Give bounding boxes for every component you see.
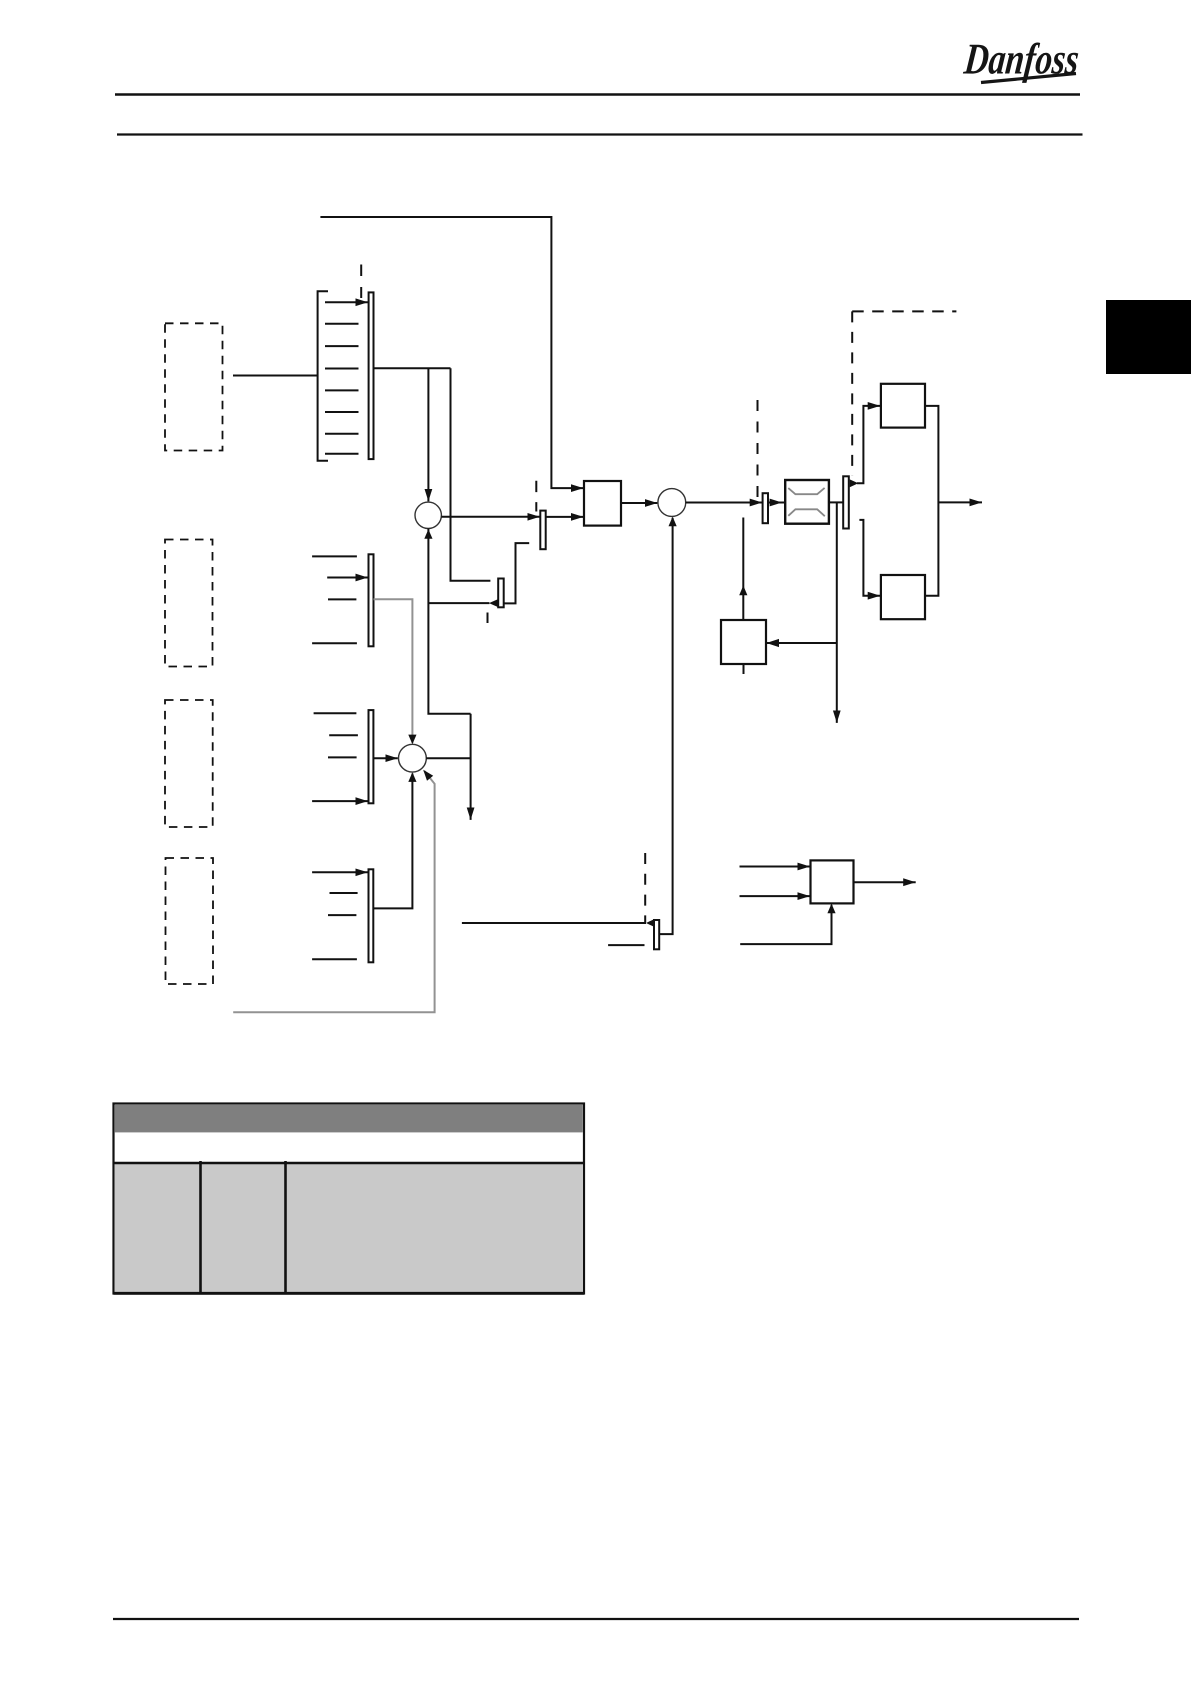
selector 4 bar	[369, 869, 374, 962]
dashed box: external reference source 2	[165, 700, 213, 827]
ramp icon lower	[788, 509, 825, 516]
arrow of feedback into sum node 2	[423, 770, 433, 781]
arrow into digital pot bottom	[827, 904, 835, 914]
table outer border	[114, 1104, 585, 1294]
ladder rung 6	[325, 411, 359, 413]
ladder rung 2	[325, 323, 359, 325]
dashed box: external reference source 3	[166, 858, 214, 984]
wire from preset source to selector ladder	[233, 375, 318, 377]
arrow up on freeze feed	[739, 586, 747, 596]
wire upper branch to block A	[857, 406, 880, 483]
arrow up into sum node 1 bottom	[424, 529, 432, 539]
digital pot block input 1	[740, 866, 811, 868]
gray feedback wire into sum node 2	[233, 771, 434, 1012]
preset selector bar	[369, 292, 374, 459]
dashed box: external reference source 1	[165, 540, 213, 667]
selector 2 rung 2 with select arrow	[327, 577, 368, 579]
table body band	[115, 1163, 583, 1293]
selector 3 rung 3	[328, 756, 357, 758]
digital pot output arrow	[854, 881, 916, 883]
selector 3 rung 2	[329, 734, 358, 736]
wire freeze-ref switch up into sum node 3	[659, 518, 672, 934]
selector 3 rung 1	[314, 712, 357, 714]
table header band	[115, 1105, 583, 1133]
header rule 2	[117, 133, 1083, 135]
header rule 1	[115, 93, 1080, 96]
digital pot block input 2	[740, 895, 811, 897]
output block A	[881, 384, 925, 428]
dashed stub below catch-up switch	[487, 613, 489, 624]
selector 3 rung 4 with select arrow	[312, 800, 368, 802]
table bottom border	[114, 1292, 585, 1295]
ladder rung 5	[325, 389, 359, 391]
wire scale block to sum node 3	[621, 502, 657, 504]
gray wire selector 2 to sum node 2	[374, 599, 413, 743]
left arrow at freeze-ref switch	[646, 919, 655, 927]
wire branch down into sum node 1	[427, 368, 429, 501]
chapter tab (black)	[1106, 300, 1191, 374]
selector 4 rung 4	[312, 958, 357, 960]
ladder rung 7	[325, 433, 359, 435]
ref-site switch bar	[540, 511, 545, 550]
output bus joining blocks	[925, 406, 938, 596]
wire ramp output to freeze switch	[829, 501, 843, 503]
selector 2 bar	[369, 554, 374, 646]
dashed stub above ref-site switch	[535, 481, 537, 512]
sum node 1	[415, 502, 441, 528]
ladder rung 8	[325, 453, 359, 455]
ladder rung 4	[325, 368, 359, 370]
selector 4 rung 3	[328, 914, 356, 916]
left arrow at catch-up switch	[489, 599, 498, 607]
wire down to output stub arrow	[470, 714, 472, 820]
wire junction down from ramp output	[836, 502, 838, 723]
arrow into sum node 2 top	[408, 735, 416, 745]
selector 2 rung 1	[312, 555, 357, 557]
Danfoss logo	[961, 35, 1081, 84]
wire ladder output	[374, 367, 451, 369]
selector 4 rung 2	[330, 892, 358, 894]
wire below sum1 down to elbow	[428, 528, 470, 713]
dashed parameter link horizontal	[852, 310, 956, 312]
output switch bar	[843, 476, 849, 528]
freeze-ref switch bar	[654, 920, 659, 949]
wire sum2 output to elbow	[426, 757, 470, 759]
table column divider 2	[284, 1161, 287, 1293]
sum node 2	[399, 744, 427, 772]
wire branch left into freeze block	[767, 642, 837, 644]
top wire from bus into scale block	[320, 217, 583, 488]
wire catch-up switch output up to ref-site switch	[504, 543, 530, 603]
dashed parameter stub above ladder bar	[360, 265, 362, 299]
output block B	[881, 575, 925, 619]
wire corner down to catch-up switch input 1	[451, 368, 491, 581]
arrow into sum node 2 bottom	[408, 772, 416, 782]
dashed parameter link above output switch	[851, 311, 853, 475]
footer rule	[113, 1618, 1079, 1620]
table column divider 1	[199, 1161, 202, 1293]
arrow after ramp switch	[770, 499, 782, 507]
wire lower branch to block B	[859, 520, 880, 596]
selector 2 rung 3	[328, 598, 356, 600]
ladder rung 1 with select arrow	[325, 301, 368, 303]
dashed box: preset reference source	[165, 323, 223, 450]
sum node 3	[658, 489, 686, 517]
ramp icon upper	[788, 488, 824, 494]
selector 3 bar	[369, 710, 374, 803]
freeze output block	[721, 620, 766, 664]
ladder rung 3	[325, 345, 359, 347]
scale block	[584, 481, 621, 526]
wire switch to scale block	[546, 516, 584, 518]
catch-up/slow-down switch bar	[498, 579, 504, 608]
wire freeze-ref input line	[462, 922, 646, 924]
final output arrow	[938, 501, 982, 503]
dashed stub above ramp switch	[757, 400, 759, 498]
arrow into freeze block right side	[766, 639, 779, 647]
wire selector 3 to sum node 2	[373, 757, 397, 759]
wire sum1 output to ref-site switch	[441, 516, 539, 518]
preset selector ladder bracket	[318, 291, 328, 461]
wire branch into catch-up switch input 2	[428, 602, 489, 604]
arrow after output switch upper	[850, 479, 859, 487]
digital pot block	[811, 860, 854, 903]
digital pot bottom input wire	[740, 905, 831, 944]
wire selector 4 up into sum node 2 bottom	[373, 774, 412, 909]
selector 2 rung 4	[312, 642, 357, 644]
freeze block parameter stub	[743, 664, 745, 674]
arrow into sum node 3 bottom	[669, 517, 677, 527]
table row separator	[114, 1162, 585, 1164]
wire sum3 output to ramp switch	[686, 502, 763, 504]
wire into ramp block	[768, 502, 785, 504]
dashed stub above freeze-ref switch	[644, 853, 646, 923]
ramp switch bar	[763, 493, 768, 523]
wire freeze block up-feed	[742, 518, 744, 621]
freeze-ref switch second input	[608, 944, 644, 946]
selector 4 rung 1 with select arrow	[312, 871, 368, 873]
ramp block	[785, 480, 829, 524]
